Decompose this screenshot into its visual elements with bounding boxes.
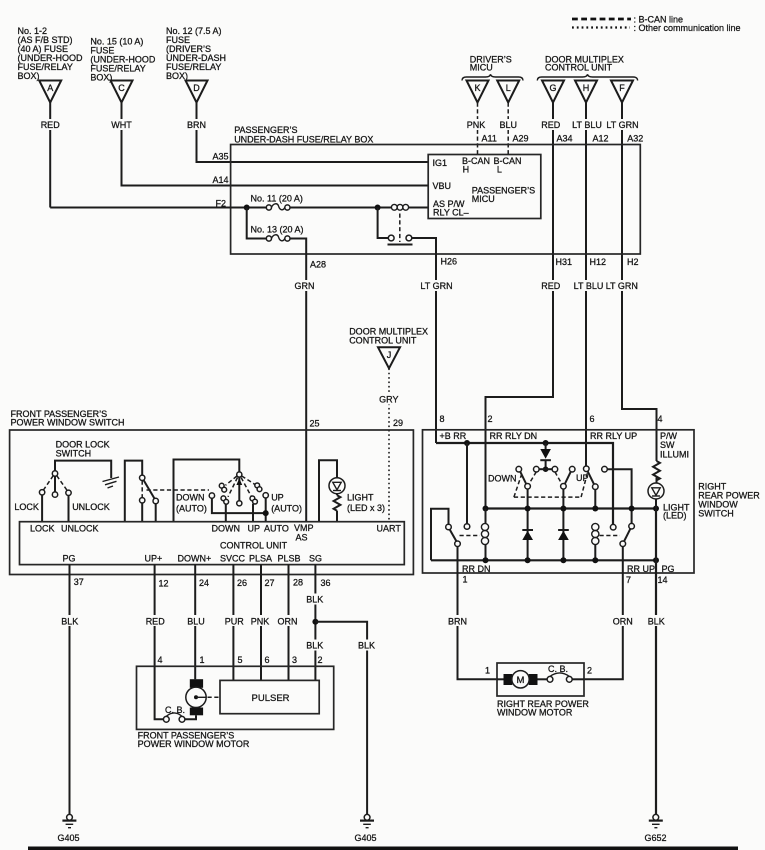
svg-text:SG: SG [309,554,322,564]
svg-text:BLK: BLK [306,595,323,605]
svg-text:BLK: BLK [358,641,375,651]
svg-text:3: 3 [292,655,297,665]
svg-text:2: 2 [318,655,323,665]
svg-text:PULSER: PULSER [252,693,290,704]
svg-text:(AUTO): (AUTO) [271,504,302,514]
svg-text:BOX): BOX) [18,71,40,81]
svg-text:C. B.: C. B. [165,705,185,715]
svg-text:26: 26 [237,578,247,588]
svg-text:D: D [193,83,200,93]
svg-text:H31: H31 [556,257,573,267]
svg-text:F2: F2 [215,199,226,209]
svg-text:CONTROL UNIT: CONTROL UNIT [349,336,417,346]
svg-text:RR RLY UP: RR RLY UP [590,431,637,441]
svg-text:RR RLY DN: RR RLY DN [490,431,538,441]
svg-text:5: 5 [238,655,243,665]
svg-text:27: 27 [265,578,275,588]
svg-text:(LED x 3): (LED x 3) [347,503,385,513]
svg-text:RR UP: RR UP [627,564,655,574]
svg-text:28: 28 [293,578,303,588]
svg-text:PLSB: PLSB [278,554,301,564]
svg-text:GRN: GRN [295,281,315,291]
svg-text:4: 4 [158,655,163,665]
svg-text:1: 1 [463,575,468,585]
svg-text:LT GRN: LT GRN [606,120,638,130]
svg-text:POWER WINDOW SWITCH: POWER WINDOW SWITCH [11,418,125,428]
svg-text:A34: A34 [557,134,573,144]
svg-text:(AUTO): (AUTO) [176,504,207,514]
svg-text:37: 37 [74,577,84,587]
svg-text:C. B.: C. B. [548,664,568,674]
svg-text:A11: A11 [482,134,497,144]
svg-text:H12: H12 [590,257,607,267]
svg-text:F: F [619,83,625,93]
svg-text:LT GRN: LT GRN [606,281,638,291]
svg-text:BOX): BOX) [90,73,112,83]
svg-text:LOCK: LOCK [14,502,39,512]
svg-text:ORN: ORN [278,617,298,627]
svg-text:2: 2 [587,666,592,676]
svg-text:L: L [497,165,502,175]
svg-text:PASSENGER’S: PASSENGER’S [234,125,297,135]
svg-text:BLK: BLK [61,617,78,627]
svg-text:A35: A35 [212,152,228,162]
svg-text:PLSA: PLSA [249,554,272,564]
svg-text:A28: A28 [310,260,326,270]
svg-text:No. 13 (20 A): No. 13 (20 A) [251,225,304,235]
svg-text:K: K [474,83,480,93]
svg-text:BLU: BLU [187,617,205,627]
svg-text:RED: RED [541,120,561,130]
svg-text:UNLOCK: UNLOCK [61,524,99,534]
svg-text:PG: PG [63,554,76,564]
svg-text:GRY: GRY [379,395,398,405]
svg-text:ILLUMI: ILLUMI [660,449,689,459]
svg-text:LT GRN: LT GRN [420,281,452,291]
svg-text:+B RR: +B RR [440,431,467,441]
svg-text:RED: RED [146,617,166,627]
svg-text:RR DN: RR DN [462,564,491,574]
svg-text:G405: G405 [58,833,80,843]
svg-text:VBU: VBU [433,181,452,191]
svg-text:12: 12 [159,579,169,589]
svg-text:UP: UP [248,524,261,534]
svg-text:H: H [583,83,590,93]
svg-text:: Other communication line: : Other communication line [634,23,741,33]
svg-text:No. 11 (20 A): No. 11 (20 A) [251,194,303,204]
svg-text:G652: G652 [645,833,667,843]
svg-text:A12: A12 [593,134,609,144]
svg-text:BLK: BLK [306,641,323,651]
svg-text:ORN: ORN [613,617,633,627]
svg-text:G: G [549,83,556,93]
svg-text:BRN: BRN [187,120,206,130]
svg-text:BLK: BLK [648,617,665,627]
svg-text:RLY CL–: RLY CL– [433,208,469,218]
svg-text:J: J [387,350,392,360]
svg-text:RED: RED [41,120,61,130]
svg-text:H2: H2 [627,257,639,267]
svg-text:SWITCH: SWITCH [698,508,734,518]
svg-text:UNLOCK: UNLOCK [72,502,110,512]
svg-text:BLU: BLU [499,120,517,130]
svg-text:2: 2 [488,414,493,424]
svg-text:8: 8 [440,414,445,424]
svg-text:POWER WINDOW MOTOR: POWER WINDOW MOTOR [138,739,250,749]
svg-text:RED: RED [541,281,561,291]
svg-text:PUR: PUR [225,617,245,627]
svg-text:UNDER-DASH FUSE/RELAY BOX: UNDER-DASH FUSE/RELAY BOX [234,135,373,145]
svg-text:A14: A14 [212,175,228,185]
svg-text:1: 1 [485,666,490,676]
svg-text:AS: AS [296,533,308,543]
svg-text:H26: H26 [441,257,458,267]
svg-text:DOWN+: DOWN+ [178,554,212,564]
svg-text:L: L [506,83,511,93]
svg-text:36: 36 [321,578,331,588]
svg-text:UP+: UP+ [145,554,163,564]
svg-text:H: H [463,165,470,175]
svg-text:WHT: WHT [111,120,132,130]
svg-text:A29: A29 [513,134,529,144]
svg-text:BRN: BRN [448,617,467,627]
svg-text:WINDOW MOTOR: WINDOW MOTOR [497,708,573,718]
svg-text:CONTROL UNIT: CONTROL UNIT [545,63,613,73]
svg-text:SVCC: SVCC [220,554,246,564]
svg-text:DOWN: DOWN [488,474,517,484]
svg-text:4: 4 [658,414,663,424]
svg-text:SWITCH: SWITCH [56,448,92,458]
svg-text:DOWN: DOWN [176,493,205,503]
svg-text:MICU: MICU [470,63,493,73]
svg-text:LIGHT: LIGHT [347,493,374,503]
svg-text:AUTO: AUTO [264,524,289,534]
svg-text:DOWN: DOWN [212,524,241,534]
svg-text:25: 25 [310,419,320,429]
svg-text:LT BLU: LT BLU [572,120,602,130]
svg-text:6: 6 [590,414,595,424]
svg-text:IG1: IG1 [433,158,448,168]
svg-text:C: C [118,83,125,93]
svg-text:1: 1 [200,655,205,665]
svg-text:7: 7 [626,575,631,585]
svg-text:A32: A32 [627,134,643,144]
svg-text:14: 14 [658,575,668,585]
svg-text:PNK: PNK [251,617,270,627]
svg-text:29: 29 [393,418,403,428]
svg-text:M: M [517,675,525,686]
svg-text:LT BLU: LT BLU [574,281,604,291]
svg-text:LOCK: LOCK [30,524,55,534]
svg-text:G405: G405 [355,833,377,843]
svg-text:A: A [47,83,53,93]
svg-text:PG: PG [662,564,675,574]
svg-text:PNK: PNK [467,120,486,130]
svg-text:CONTROL UNIT: CONTROL UNIT [220,541,288,551]
svg-text:UART: UART [377,524,402,534]
svg-text:6: 6 [265,655,270,665]
svg-text:(LED): (LED) [663,511,687,521]
svg-text:24: 24 [199,578,209,588]
svg-text:UP: UP [271,493,284,503]
svg-text:MICU: MICU [472,194,495,204]
